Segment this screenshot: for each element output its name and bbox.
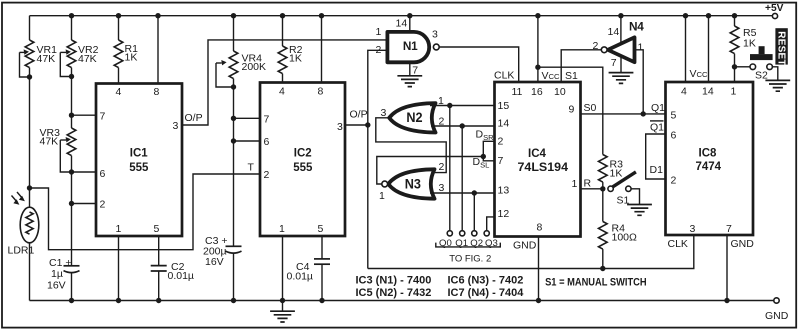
node IC1 pin7 junction	[69, 113, 74, 118]
resistor VR4 200K	[229, 51, 238, 79]
svg-text:14: 14	[498, 118, 510, 130]
wire: CLK line to IC8 pin 3	[368, 235, 694, 269]
svg-text:16V: 16V	[47, 279, 66, 291]
wire: GND bottom rail	[30, 300, 774, 302]
wire: pin6 node down to pin2 node	[71, 172, 73, 204]
svg-text:IC3 (N1) - 7400: IC3 (N1) - 7400	[356, 275, 432, 287]
svg-text:+5V: +5V	[765, 3, 784, 14]
node O/P junction	[365, 122, 370, 127]
node IC2 pin6 junction	[231, 138, 236, 143]
node Q1 branch junction	[460, 123, 465, 128]
svg-text:1K: 1K	[743, 37, 756, 49]
svg-text:1: 1	[379, 190, 385, 202]
svg-text:8: 8	[537, 222, 543, 234]
svg-text:T: T	[248, 161, 255, 173]
wire: R node to R4	[602, 189, 604, 222]
ground at S2	[765, 80, 790, 91]
resistor VR3 47K	[67, 128, 76, 156]
svg-text:7: 7	[611, 57, 617, 69]
wire: VR2 to IC1 pin7 node	[71, 77, 73, 116]
svg-text:O/P: O/P	[350, 109, 368, 121]
svg-text:1: 1	[572, 178, 578, 190]
IC2 pin number labels	[264, 85, 344, 235]
wire: pin7 node down to VR3	[71, 115, 73, 128]
svg-text:GND: GND	[765, 310, 789, 322]
svg-text:7: 7	[264, 113, 270, 125]
wire: IC1 pin 8 from rail	[157, 16, 159, 84]
wire: T line from IC2 pin 2 to LDR node	[31, 174, 260, 250]
wire: R5 column from rail	[734, 16, 736, 26]
capacitor C1 1u 16V polarized	[64, 266, 80, 273]
node Q2 branch junction	[472, 190, 477, 195]
svg-text:1K: 1K	[610, 167, 623, 179]
svg-text:555: 555	[129, 162, 149, 174]
svg-text:O/P: O/P	[185, 112, 203, 124]
wire: pin6 node down to C3	[233, 141, 235, 246]
svg-text:IC6 (N3) - 7402: IC6 (N3) - 7402	[448, 275, 524, 287]
node VR1 bottom junction	[27, 74, 32, 79]
node R4/CLK junction	[600, 266, 605, 271]
svg-text:S1: S1	[565, 70, 578, 82]
svg-text:2: 2	[671, 174, 677, 186]
ground at N1 pin 7	[397, 76, 422, 87]
svg-text:5: 5	[318, 223, 324, 235]
resistor R1 1K	[114, 40, 123, 68]
svg-text:47K: 47K	[37, 53, 56, 65]
svg-text:N4: N4	[629, 19, 644, 33]
capacitor C3 200u 16V polarized	[226, 246, 242, 253]
svg-text:10: 10	[554, 86, 566, 98]
wire: R1 column from rail	[118, 16, 120, 40]
wire: IC1 pin 5 to C2	[158, 236, 160, 266]
svg-text:200K: 200K	[242, 61, 267, 73]
bracket under Q0-Q3	[436, 243, 501, 247]
wire: C2 to bottom rail	[158, 271, 160, 301]
svg-text:7: 7	[100, 110, 106, 122]
resistor R3 1K	[599, 155, 608, 183]
node R junction	[600, 186, 605, 191]
wire: IC8 pin 7 to bottom rail	[726, 235, 728, 301]
node IC1 pin6 junction	[69, 169, 74, 174]
wire: IC4 pin 12 elbow to Q3	[487, 217, 495, 231]
svg-text:0.01µ: 0.01µ	[287, 271, 314, 283]
wire: pin2 node down to C1	[71, 204, 73, 266]
svg-text:IC5 (N2) - 7432: IC5 (N2) - 7432	[356, 287, 432, 299]
junction dots on +5V rail	[69, 13, 737, 18]
resistor VR2 47K	[67, 40, 76, 68]
wire: R1 to IC1 pin 4	[118, 68, 120, 84]
svg-text:CLK: CLK	[668, 238, 688, 250]
svg-text:14: 14	[396, 18, 408, 30]
svg-text:6: 6	[100, 168, 106, 180]
ground below rail at IC2 pin1	[270, 301, 295, 323]
wire: IC4 pin 1 R input	[581, 188, 603, 190]
wire: IC1 pin 3 output to N1 pin 1 (O/P line)	[182, 40, 386, 125]
gate N4 7404 inverter (mirrored)	[601, 37, 634, 62]
svg-text:8: 8	[154, 86, 160, 98]
gate N3 7402 NOR (mirrored)	[382, 169, 435, 198]
svg-text:0.01µ: 0.01µ	[168, 270, 195, 282]
wire: VR1 column from rail	[29, 16, 31, 40]
svg-text:1: 1	[731, 86, 737, 98]
wire: R2 column from rail	[282, 16, 284, 46]
svg-text:1K: 1K	[125, 51, 138, 63]
svg-text:1: 1	[279, 223, 285, 235]
wire: R4 to CLK line	[602, 249, 604, 268]
svg-text:IC4: IC4	[528, 148, 547, 160]
wire: IC4 pin 9 S0 to IC8 pin 5 Q1	[581, 113, 666, 115]
gate N2 7432 OR (mirrored)	[389, 103, 435, 132]
wire: to IC1 pin 6	[72, 171, 97, 173]
resistor R2 1K	[278, 46, 287, 74]
wire: Q0 drop wire	[449, 106, 451, 231]
svg-text:3: 3	[439, 182, 445, 194]
op-amp IC2 555 box	[260, 83, 345, 237]
svg-text:IC7 (N4) - 7404: IC7 (N4) - 7404	[448, 287, 525, 299]
wire: IC2 pin 8 from rail	[321, 16, 323, 83]
wire: LDR node to ellipse	[29, 188, 31, 208]
N4 pin labels 14 1 2 7	[593, 26, 644, 69]
svg-text:74LS194: 74LS194	[518, 162, 569, 174]
svg-text:1µ: 1µ	[51, 268, 63, 280]
svg-text:LDR1: LDR1	[8, 245, 35, 257]
resistor R4 100ohm	[599, 222, 608, 250]
svg-text:2: 2	[498, 136, 504, 148]
resistor VR1 47K	[25, 40, 34, 68]
IC8 pin number labels	[671, 86, 737, 235]
wire: IC8 pin 6 Q1bar to pin 2 D1 loop	[646, 134, 666, 179]
wire: VR4 node down to IC2 pin7 node	[233, 87, 235, 118]
svg-text:2: 2	[376, 44, 382, 56]
wire: N3 input 3 to IC4 pin 13	[430, 192, 495, 194]
node Q2 terminal	[472, 231, 477, 236]
svg-text:R: R	[584, 177, 592, 189]
svg-text:2: 2	[439, 161, 445, 173]
wire: N1 output to IC4 pin 11	[439, 47, 519, 82]
shift register IC4 74LS194 box	[495, 82, 581, 237]
svg-text:100Ω: 100Ω	[612, 232, 638, 244]
wire: N2 output loop to N3 input 2	[376, 118, 446, 173]
wire: VR4 column from rail	[233, 16, 235, 51]
wire: N3 output up to DSR/DSL node	[377, 157, 484, 185]
svg-text:16: 16	[531, 86, 543, 98]
wire: IC2 pin 3 to O/P node	[345, 124, 368, 126]
wire: C1 to bottom rail	[71, 273, 73, 301]
svg-text:N3: N3	[405, 175, 421, 191]
node Q3 terminal	[484, 231, 489, 236]
wire: IC2 pin 5 to C4	[321, 236, 323, 259]
node IC1 pin2 junction	[69, 201, 74, 206]
wire: R3 to R node	[602, 182, 604, 189]
wire: VR3 bottom lead	[71, 156, 73, 172]
wire: Vcc branch to R3 top	[538, 67, 603, 154]
svg-text:S0: S0	[584, 102, 597, 114]
RESET label block	[775, 28, 787, 65]
node N4 input junction	[641, 111, 646, 116]
switch S2 push-button RESET	[750, 46, 773, 69]
wire: VR1 bottom lead	[29, 68, 31, 77]
svg-text:VCC: VCC	[542, 70, 560, 82]
svg-text:1: 1	[376, 26, 382, 38]
svg-text:VCC: VCC	[690, 68, 708, 80]
wire: VR4 bottom lead	[233, 79, 235, 87]
svg-text:7474: 7474	[696, 161, 722, 173]
label Q1bar	[650, 121, 664, 134]
node GND terminal	[774, 298, 779, 303]
wire: IC2 pin 1 to bottom rail	[282, 236, 284, 301]
svg-text:GND: GND	[513, 240, 537, 252]
svg-text:IC2: IC2	[294, 147, 312, 159]
node Q1 terminal	[460, 231, 465, 236]
resistor R5 1K	[730, 26, 739, 54]
wire: +5V top rail	[30, 15, 773, 17]
wire: S2 to ground	[772, 67, 777, 80]
switch S1 (manual)	[608, 172, 636, 192]
svg-text:GND: GND	[731, 238, 755, 250]
junction dots on GND rail	[69, 298, 730, 303]
N1 pin labels 1 2 3 14 7	[376, 18, 439, 77]
svg-text:CLK: CLK	[494, 70, 514, 82]
wire: Q1 drop wire	[461, 126, 463, 231]
wire: C3 to bottom rail	[233, 253, 235, 300]
wire: N2 input 2 to IC4 pin 14	[431, 125, 495, 127]
wire: N1 pin 14 from rail	[409, 16, 411, 32]
svg-text:Q1: Q1	[651, 102, 665, 114]
labels Q0 Q1 Q2 Q3	[439, 238, 498, 249]
capacitor C4 0.01u	[314, 259, 330, 264]
svg-text:7: 7	[412, 64, 418, 76]
node IC2 pin7 junction	[231, 116, 236, 121]
svg-text:6: 6	[264, 136, 270, 148]
svg-text:3: 3	[337, 121, 343, 133]
wire: junction to S2	[735, 66, 751, 68]
ground at S1	[627, 205, 652, 216]
IC1 pin number labels	[100, 86, 179, 235]
svg-text:5: 5	[154, 223, 160, 235]
wire: N4 pin 14 from rail	[620, 16, 622, 44]
wire: N2 input 1 to IC4 pin 15	[430, 105, 495, 107]
svg-text:14: 14	[608, 26, 620, 38]
node +5V terminal	[772, 13, 777, 18]
wire: VR2 bottom lead	[71, 68, 73, 77]
wire: IC4 pin 16 Vcc from rail	[537, 16, 539, 82]
svg-text:3: 3	[432, 29, 438, 41]
svg-text:TO FIG. 2: TO FIG. 2	[449, 253, 491, 264]
wire: down to IC2 pin6 node	[233, 118, 235, 141]
wire: IC1 pin 1 to bottom rail	[118, 236, 120, 301]
wire: C4 to bottom rail	[321, 264, 323, 300]
svg-text:S1 = MANUAL SWITCH: S1 = MANUAL SWITCH	[545, 276, 647, 288]
wire: to IC1 pin 2	[72, 203, 97, 205]
svg-text:4: 4	[681, 86, 687, 98]
svg-text:15: 15	[498, 100, 510, 112]
wire: N4 output to IC4 pin 10	[561, 50, 601, 82]
svg-text:13: 13	[498, 185, 510, 197]
svg-text:4: 4	[116, 86, 122, 98]
svg-text:47K: 47K	[40, 136, 59, 148]
wire: VR1 junction down to LDR node	[29, 77, 31, 188]
svg-text:N1: N1	[403, 39, 418, 53]
svg-text:D1: D1	[650, 164, 664, 176]
wire: to IC2 pin 7	[234, 117, 261, 119]
node VR2 bottom junction	[69, 74, 74, 79]
wire: Q2 drop wire	[473, 193, 475, 231]
svg-text:1: 1	[116, 223, 122, 235]
gate N1 7400 NAND	[387, 32, 439, 62]
N3 pin labels 1 2 3	[379, 161, 445, 202]
svg-text:Q1: Q1	[650, 122, 664, 134]
svg-text:12: 12	[498, 208, 510, 220]
svg-text:14: 14	[702, 86, 714, 98]
svg-text:3: 3	[690, 223, 696, 235]
wire: VR2 column from rail	[71, 16, 73, 40]
IC4 pin number labels	[498, 86, 578, 234]
node Vcc branch junction	[535, 65, 540, 70]
svg-text:2: 2	[100, 199, 106, 211]
wire: IC4 pins 2-7 DSR/DSL tie loop	[483, 141, 494, 161]
node DSR/DSL junction	[481, 154, 486, 159]
svg-text:RESET: RESET	[776, 31, 787, 65]
svg-text:2: 2	[264, 169, 270, 181]
wire: N4 input from Q1/S0 net	[635, 50, 644, 114]
wire: S1 to ground	[631, 189, 639, 205]
svg-text:9: 9	[569, 103, 575, 115]
node R5/S2 junction	[732, 64, 737, 69]
svg-text:IC1: IC1	[130, 147, 149, 159]
node LDR top junction	[27, 185, 32, 190]
wire: IC4 pin 8 to bottom rail	[538, 237, 540, 301]
svg-text:3: 3	[173, 120, 179, 132]
svg-text:6: 6	[671, 129, 677, 141]
wire: IC8 pin 14 from rail	[708, 16, 710, 82]
svg-text:47K: 47K	[78, 53, 97, 65]
svg-text:8: 8	[318, 85, 324, 97]
svg-text:7: 7	[726, 223, 732, 235]
N2 pin labels 3 1 2	[381, 95, 445, 127]
wire: N1 pin 2 down through O/P node to CLK line	[368, 50, 388, 268]
wire: IC8 pin 4 from rail	[685, 16, 687, 82]
flip-flop IC8 7474 box	[666, 82, 754, 235]
node VR4 bottom junction	[231, 84, 236, 89]
svg-text:N2: N2	[406, 109, 422, 125]
wire: to IC1 pin 7	[72, 114, 97, 116]
svg-text:11: 11	[512, 86, 523, 98]
wire: LDR to bottom rail	[29, 243, 31, 301]
wire: R2 to IC2 pin 4	[282, 74, 284, 83]
node Q0 branch junction	[447, 103, 452, 108]
svg-text:16V: 16V	[205, 256, 224, 268]
wire: to IC2 pin 6	[234, 140, 261, 142]
ground at N4 pin 7	[609, 73, 634, 84]
op-amp IC1 555 box	[96, 84, 182, 237]
LDR1 photoresistor	[12, 192, 39, 243]
svg-text:4: 4	[279, 85, 285, 97]
svg-text:7: 7	[498, 155, 504, 167]
wire: N4 pin 7 stub	[620, 56, 622, 72]
svg-text:1K: 1K	[289, 53, 302, 65]
svg-text:IC8: IC8	[699, 148, 718, 160]
node Q0 terminal	[447, 231, 452, 236]
wire: R5 to IC8 pin 1	[734, 54, 736, 82]
capacitor C2 0.01u	[151, 266, 167, 271]
svg-text:5: 5	[671, 109, 677, 121]
wire: N1 pin 7 stub	[409, 62, 411, 75]
svg-text:555: 555	[293, 162, 313, 174]
